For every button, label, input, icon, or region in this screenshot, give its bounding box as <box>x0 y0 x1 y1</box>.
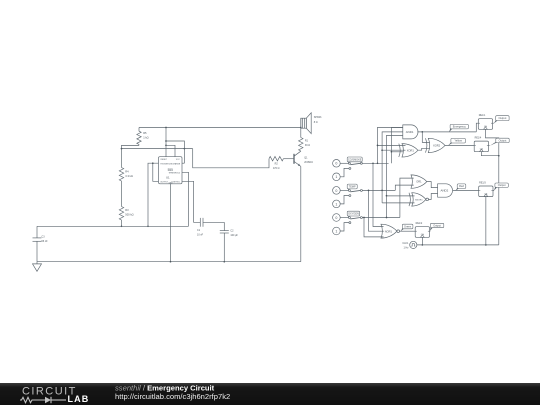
node xor1a-branch <box>377 145 379 147</box>
wire top VCC rail <box>139 127 301 129</box>
wire bus B to NOR in2 <box>369 190 384 231</box>
wire low to switch SW1 <box>340 162 348 164</box>
svg-text:500 kΩ: 500 kΩ <box>125 213 133 217</box>
wire row3 to AND1 in3 <box>387 135 403 217</box>
wire row CO/SMOKE <box>362 162 388 164</box>
flip-flop RE1/3 <box>479 186 493 197</box>
node clkbus-re14 <box>498 155 500 157</box>
node busB-row2 <box>368 190 370 192</box>
svg-text:100 µF: 100 µF <box>230 234 238 237</box>
flag Green <box>401 228 406 232</box>
svg-text:U1: U1 <box>166 176 170 180</box>
svg-text:XNOR1: XNOR1 <box>415 199 423 201</box>
svg-text:THRESHOLD: THRESHOLD <box>169 173 181 175</box>
flag Output1 <box>494 120 499 124</box>
wire GND pin <box>170 184 172 262</box>
node flag OXYGEN <box>348 215 351 217</box>
svg-text:555: 555 <box>168 168 174 172</box>
svg-text:XOR1: XOR1 <box>407 148 415 152</box>
svg-text:RESET: RESET <box>161 159 168 161</box>
svg-text:AND1: AND1 <box>406 130 414 134</box>
gate XOR1 <box>402 144 418 157</box>
wire branch XOR1 in2 <box>391 151 403 153</box>
svg-text:http://circuitlab.com/c3jh6n2r: http://circuitlab.com/c3jh6n2rfp7k2 <box>115 392 230 401</box>
svg-text:0: 0 <box>335 189 337 193</box>
wire low to switch SW2 <box>340 189 348 191</box>
transistor Q1 <box>293 154 295 164</box>
flag Output2 <box>490 142 499 146</box>
gate NOR1 <box>381 224 397 238</box>
node output-trigger junction <box>152 162 154 164</box>
svg-text:RE1/4: RE1/4 <box>475 137 482 140</box>
node vcc branch1 <box>165 140 167 142</box>
node busA-row1 <box>372 162 374 164</box>
wire OR1 out to AND2 in1 <box>427 182 438 188</box>
node R3-wireA junction <box>121 225 123 227</box>
svg-text:Output: Output <box>433 223 441 227</box>
svg-text:DISCHARGE: DISCHARGE <box>169 162 181 165</box>
svg-text:CLK1: CLK1 <box>402 242 409 245</box>
node rail-speaker junction <box>300 127 302 129</box>
switch SW3 <box>348 217 350 219</box>
wire row2 to AND1 in2, XOR1 in2, XNOR1 in2 <box>382 132 403 203</box>
svg-text:NOR1: NOR1 <box>385 229 393 233</box>
svg-text:Yellow: Yellow <box>454 139 462 143</box>
svg-text:AND2: AND2 <box>441 189 449 193</box>
resistor R1 <box>300 128 302 137</box>
svg-text:Output: Output <box>499 138 507 142</box>
svg-text:Output: Output <box>498 183 506 187</box>
node xor1b-branch <box>381 149 383 151</box>
wire RE1/3 clk <box>485 197 487 245</box>
svg-text:XOR2: XOR2 <box>433 143 441 147</box>
input HIGH source I2 <box>333 173 341 181</box>
wire reset-vcc drop <box>165 128 167 158</box>
op 555 box U1 <box>159 157 183 184</box>
wire XOR1 out to XOR2 in2 <box>418 148 430 150</box>
node c2-rail junction <box>223 261 225 263</box>
wire RE1/4 clk <box>481 152 498 156</box>
svg-text:R4: R4 <box>125 170 129 174</box>
wire RE1/3 out <box>493 190 494 192</box>
wire row3 end to OR1 in1 <box>400 178 414 217</box>
resistor R3 <box>119 207 123 221</box>
speaker SPKR1 <box>300 118 302 128</box>
clock CLK1 <box>410 241 417 248</box>
node R5-R4-disnet junction <box>121 148 123 150</box>
wire collector <box>300 150 302 152</box>
wire OUTPUT to trigger <box>153 163 159 181</box>
svg-text:2N3904: 2N3904 <box>304 161 313 164</box>
svg-text:C3: C3 <box>42 236 46 239</box>
capacitor C1 <box>199 218 201 227</box>
resistor R5 <box>138 128 140 132</box>
wire clock rail <box>417 244 499 246</box>
wire XOR2 output <box>445 145 474 147</box>
node rail-reset junction <box>165 127 167 129</box>
svg-text:1 kΩ: 1 kΩ <box>143 136 148 140</box>
svg-text:TEMP: TEMP <box>349 185 356 188</box>
wire row OXYGEN <box>362 217 400 219</box>
flag Output3 <box>494 186 498 190</box>
wire DIS stub <box>182 162 184 164</box>
svg-text:Output: Output <box>499 116 507 120</box>
node and1out-xor2 junction <box>421 131 423 133</box>
svg-text:Green: Green <box>404 224 412 228</box>
gate AND2 <box>438 184 453 197</box>
wire bottom rail <box>37 261 301 263</box>
wire and1out to XOR2 in1 <box>422 132 430 143</box>
node gnd-rail junction <box>170 261 172 263</box>
svg-text:0: 0 <box>335 162 337 166</box>
node clkrail-re12 <box>422 244 424 246</box>
svg-text:10 nF: 10 nF <box>197 233 204 236</box>
flip-flop RE1/4 <box>474 141 488 152</box>
wire row2 end to OR1 in2 <box>395 185 413 190</box>
svg-text:R3: R3 <box>125 208 129 212</box>
svg-text:VCC: VCC <box>176 159 181 161</box>
wire branch XNOR1 in1 <box>387 195 415 197</box>
wire high to switch SW3 <box>340 223 349 231</box>
capacitor C3 <box>36 226 38 238</box>
wire A threshold net <box>37 225 189 227</box>
wire bus C to NOR in3 <box>364 218 384 237</box>
gate OR1 <box>411 175 427 188</box>
svg-text:1: 1 <box>335 175 337 179</box>
flag Red <box>456 188 461 191</box>
wire RE1/4 out <box>489 145 490 147</box>
wire RE1/1 clk <box>485 129 498 245</box>
svg-text:1: 1 <box>335 229 337 233</box>
svg-text:SPKR1: SPKR1 <box>314 116 323 119</box>
resistor R4 <box>121 149 123 168</box>
node xnor1feed <box>386 195 388 197</box>
svg-text:R1: R1 <box>305 139 309 142</box>
flag Output4 <box>430 227 434 231</box>
svg-text:C2: C2 <box>230 229 234 232</box>
node busC-row3 <box>363 217 365 219</box>
svg-text:Emergency: Emergency <box>453 125 467 129</box>
wire RE1/2 out <box>429 230 432 232</box>
svg-text:1: 1 <box>335 202 337 206</box>
gate AND1 <box>403 125 418 139</box>
flip-flop RE1/2 <box>415 227 429 238</box>
svg-text:CO/SMOKE: CO/SMOKE <box>348 158 362 161</box>
svg-text:1 Hz: 1 Hz <box>403 247 409 250</box>
svg-text:RE1/3: RE1/3 <box>479 181 486 184</box>
svg-text:3.3 kΩ: 3.3 kΩ <box>125 174 133 178</box>
capacitor C2 <box>223 222 225 230</box>
wire NOR1 output <box>400 230 416 232</box>
svg-text:56 nF: 56 nF <box>42 240 49 243</box>
node trigger-wireA junction <box>147 225 149 227</box>
svg-text:Q1: Q1 <box>304 157 308 160</box>
gate XOR2 <box>428 138 445 152</box>
gate XNOR1 <box>412 193 426 206</box>
svg-text:39 Ω: 39 Ω <box>305 144 310 147</box>
wire discharge net <box>122 148 193 150</box>
wire jog to DIS riser <box>166 141 184 163</box>
resistor R2 <box>269 157 283 161</box>
svg-text:OXYGEN: OXYGEN <box>348 213 359 216</box>
wire row TEMP <box>362 189 395 191</box>
svg-text:LAB: LAB <box>68 394 90 404</box>
wire emitter <box>300 166 302 261</box>
switch SW1 <box>348 162 350 164</box>
svg-text:C1: C1 <box>197 229 201 232</box>
svg-text:0: 0 <box>335 216 337 220</box>
wire XNOR1 out to AND2 in2 <box>429 194 438 200</box>
wire high to switch SW2 <box>340 196 349 204</box>
input LOW source I5 <box>333 214 341 222</box>
svg-text:470 Ω: 470 Ω <box>273 167 280 170</box>
wire RE1/2 clk <box>421 237 423 245</box>
wire RE1/1 out <box>492 122 495 124</box>
node and1b-row2 <box>381 190 383 192</box>
input HIGH source I4 <box>333 200 341 208</box>
svg-text:8 Ω: 8 Ω <box>314 121 318 124</box>
wire row1 to AND1 in1 and XOR1 in1 <box>378 127 403 163</box>
wire row1 end to AND1 in1 <box>391 128 402 164</box>
svg-text:OR1: OR1 <box>416 180 422 184</box>
switch SW2 <box>348 189 350 191</box>
wire discharge to R2 <box>193 149 269 168</box>
svg-text:GND: GND <box>169 182 174 184</box>
wire high to switch SW1 <box>340 168 349 176</box>
input LOW source I1 <box>333 160 341 168</box>
svg-text:Red: Red <box>459 184 464 188</box>
wire CONTROL <box>182 181 200 222</box>
node flag TEMP <box>348 188 351 190</box>
flag Yellow <box>448 142 454 146</box>
wire AND1 output <box>417 131 476 133</box>
node clkrail-re13 <box>485 244 487 246</box>
wire bus A to NOR in1 <box>373 163 384 226</box>
input LOW source I3 <box>333 187 341 195</box>
ground <box>36 262 38 264</box>
wire THRESHOLD <box>182 172 189 226</box>
node xor1b-branch <box>391 151 393 153</box>
node vcc branch2 <box>165 144 167 146</box>
svg-text:R5: R5 <box>143 131 147 135</box>
svg-text:RE1/1: RE1/1 <box>479 114 486 117</box>
node xor1feed-row1 <box>377 162 379 164</box>
wire TRIGGER <box>148 163 159 226</box>
wire jog to VCC pin <box>166 145 175 157</box>
node flag CO/SMOKE <box>348 161 351 163</box>
wire low to switch SW3 <box>340 217 348 219</box>
node and1c-row3 <box>386 217 388 219</box>
svg-text:R2: R2 <box>275 163 279 166</box>
svg-text:RE1/2: RE1/2 <box>416 222 423 225</box>
flag Emergency <box>449 128 453 132</box>
node disnet-riser junction <box>184 148 186 150</box>
wire AND2 output <box>453 190 479 192</box>
flip-flop RE1/1 <box>478 119 492 130</box>
input HIGH source I6 <box>333 227 341 235</box>
wire R5 jog <box>122 145 140 148</box>
